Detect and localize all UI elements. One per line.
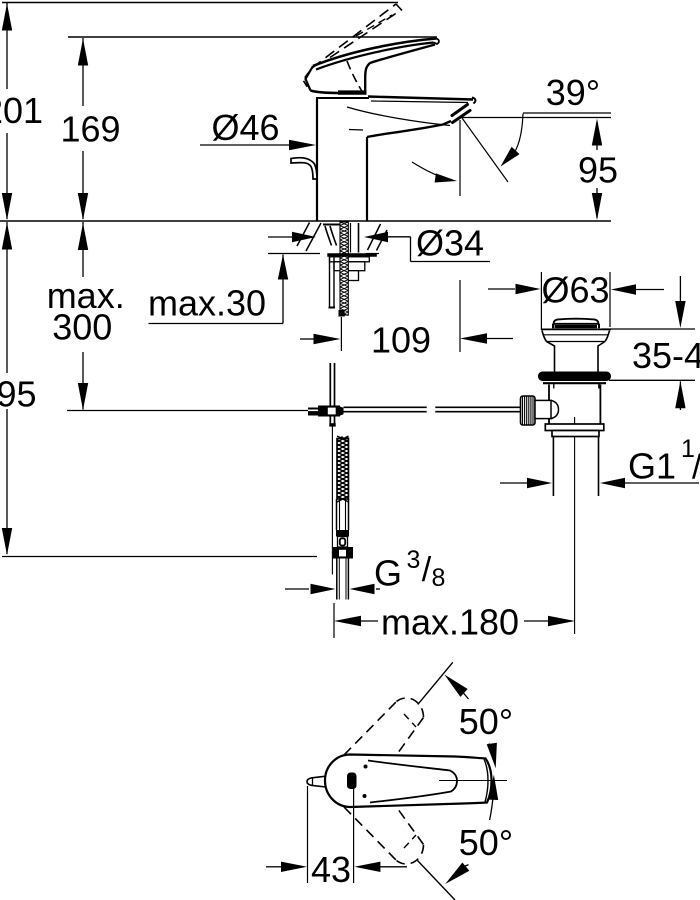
- G3/8 label slash: [422, 551, 432, 589]
- dimension max.30 bottom line: [149, 323, 284, 325]
- dimension 395 bottom reference line: [2, 556, 317, 558]
- dimension 109 right arrow: [460, 333, 487, 343]
- drain body right side: [599, 385, 601, 425]
- counter hatch right line 2: [377, 230, 388, 251]
- drain side knob transition: [551, 400, 559, 418]
- G1-1/4 left line: [500, 482, 527, 484]
- svg-text:max.30: max.30: [148, 283, 266, 324]
- handle lever tip cap: [434, 39, 439, 45]
- handle top view nub: [307, 776, 326, 787]
- dimension 201 line upper segment: [6, 3, 8, 89]
- faucet spout tip hook: [472, 98, 475, 104]
- tee right wedge: [340, 407, 344, 416]
- dimension 109 right line: [486, 338, 513, 340]
- svg-text:/: /: [422, 551, 432, 589]
- raised handle dashed edge B: [330, 10, 401, 58]
- dimension 109 left extension line: [340, 317, 342, 351]
- svg-text:169: 169: [60, 109, 120, 150]
- drain flange: [538, 372, 611, 382]
- dimension max.300 bottom reference line: [67, 410, 308, 412]
- drain flare top face: [541, 328, 611, 330]
- drain slip nut lower: [552, 431, 599, 437]
- drain neck left: [547, 342, 555, 372]
- handle top view dot lower: [363, 794, 367, 798]
- dimension 43 label: [311, 849, 351, 890]
- drain tailpipe left: [552, 437, 554, 497]
- dimension 43 left line: [266, 866, 282, 868]
- drain flare line1: [544, 334, 608, 336]
- dimension max.300 label line1: [47, 275, 125, 316]
- outlet vertical ray lower: [459, 280, 461, 352]
- dimension 95 line lower segment: [596, 188, 598, 218]
- dimension 395 arrow down: [2, 528, 12, 555]
- counter hatch left line 2: [297, 223, 310, 247]
- hose tube below left inner: [338, 559, 340, 600]
- pull rod left line: [329, 363, 331, 406]
- faucet body left edge: [316, 99, 318, 221]
- drain neck right: [598, 342, 605, 372]
- G3/8 right arrow: [350, 584, 375, 594]
- svg-text:43: 43: [311, 849, 351, 890]
- dimension max.300 line upper segment: [82, 222, 84, 277]
- faucet spout underside: [367, 121, 451, 137]
- dimension D63 label: [541, 270, 609, 311]
- svg-text:109: 109: [371, 320, 431, 361]
- dimension 43 left arrow: [281, 862, 307, 872]
- dimension max.300 label line2: [52, 307, 112, 348]
- drain tailpipe right: [598, 437, 600, 497]
- hose tube wall right outer: [348, 499, 350, 530]
- dimension 35-45 top line: [602, 328, 695, 330]
- dimension D63 right extension: [609, 272, 611, 327]
- dimension 169 arrow down: [78, 193, 88, 220]
- outlet angled ray 39deg: [462, 118, 508, 182]
- dimension 395 arrow up: [2, 223, 12, 250]
- handle lever bottom edge: [365, 45, 435, 92]
- extension line top of handle (169 ref): [68, 36, 437, 38]
- lower 50deg arrowhead 2: [445, 863, 469, 885]
- rotated handle lower dashed right edge: [398, 809, 424, 845]
- G3/8 label G: [374, 553, 402, 594]
- svg-text:3: 3: [407, 546, 421, 574]
- rotated handle lower dashed inner: [404, 835, 416, 848]
- svg-text:50°: 50°: [459, 822, 513, 863]
- svg-text:max.180: max.180: [381, 602, 519, 643]
- max180 right arrow: [548, 616, 575, 626]
- drain side knob collar: [535, 400, 551, 418]
- dimension D34 leader bend: [410, 237, 412, 262]
- rotated handle lower dashed left edge: [344, 807, 397, 861]
- hose connector nut: [333, 547, 353, 559]
- handle base bottom bar: [338, 90, 367, 94]
- drain slip nut upper: [545, 424, 604, 431]
- dimension 35-45 label: [632, 335, 700, 376]
- dimension 395 line lower segment: [6, 409, 8, 554]
- drain plug cap ring: [555, 325, 598, 328]
- dimension max.300 arrow up: [78, 223, 88, 250]
- rotated handle lower dashed tip: [397, 845, 424, 864]
- dimension 169 label: [60, 109, 120, 150]
- dimension 169 line upper segment: [82, 38, 84, 106]
- dimension 395 line upper segment: [6, 222, 8, 373]
- handle lever top edge outer: [313, 39, 436, 67]
- dimension 95 label: [578, 150, 618, 191]
- dimension 201 line lower segment: [6, 133, 8, 219]
- drain centerline: [574, 417, 576, 634]
- tee left piece: [308, 408, 318, 416]
- max180 left arrow: [334, 616, 361, 626]
- dimension D34 right line: [388, 236, 411, 238]
- faucet aerator inner stroke: [453, 111, 471, 123]
- hose tube below right outer: [347, 559, 349, 600]
- upper 50deg label: [459, 701, 513, 742]
- dimension max.300 line lower segment: [82, 352, 84, 410]
- dimension 95 line upper segment: [596, 122, 598, 150]
- G3/8 right tail: [376, 588, 380, 590]
- svg-text:95: 95: [578, 150, 618, 191]
- pull rod right line: [334, 363, 336, 406]
- horizontal lever rod segment 2 top: [435, 406, 521, 408]
- handle lever top edge inner: [316, 43, 434, 70]
- faucet aerator outer stroke: [452, 105, 468, 116]
- handle top view nub notch: [312, 778, 314, 786]
- dimension D63 right arrow: [611, 284, 636, 294]
- upper 50deg reference line: [418, 662, 453, 704]
- 39deg leader line: [523, 112, 611, 114]
- handle top view dot upper: [364, 765, 368, 769]
- shank seal top line: [323, 224, 340, 226]
- max180 left extension line: [333, 603, 335, 638]
- handle top view outline: [325, 755, 492, 808]
- handle base left outline: [306, 66, 314, 91]
- shank right component edge: [358, 223, 360, 253]
- drain flare line2: [547, 341, 606, 343]
- mounting flange bar: [327, 253, 377, 257]
- dimension D63 left line: [488, 288, 515, 290]
- dimension 395 label: [0, 374, 37, 415]
- drain flange washer line: [543, 382, 606, 384]
- spout swivel arc: [412, 162, 453, 181]
- G1-1/4 right arrow: [600, 478, 625, 488]
- hose tube wall left outer: [336, 499, 338, 530]
- pull rod stub below tee right: [334, 417, 336, 424]
- horizontal lever rod segment 1 top: [344, 406, 427, 408]
- 39deg leader arc: [516, 114, 524, 151]
- max180 label: [381, 602, 519, 643]
- drain body shoulder tick right: [598, 384, 600, 389]
- dimension 43 right extension: [353, 788, 355, 884]
- handle top view right inner arc: [484, 759, 488, 802]
- svg-text:Ø34: Ø34: [416, 223, 484, 264]
- hose tube wall left inner: [339, 499, 341, 530]
- drain plug cap ring ends: [553, 324, 599, 329]
- dimension 35-45 arrow down: [675, 301, 685, 328]
- threaded rod with hatch: [340, 222, 348, 316]
- counter hatch left line 1: [306, 223, 321, 251]
- pull rod guide bottom cap: [329, 307, 336, 309]
- G3/8 label numerator: [407, 546, 421, 574]
- horizontal lever rod segment 2 bottom: [435, 411, 521, 413]
- rotated handle upper dashed right edge: [398, 718, 424, 754]
- hose connector mid: [338, 537, 348, 548]
- svg-text:50°: 50°: [459, 701, 513, 742]
- dimension 35-45 dim line lower: [679, 381, 681, 410]
- drain flare right side: [605, 331, 610, 342]
- svg-text:8: 8: [432, 564, 446, 592]
- dimension 109 left arrow: [314, 334, 341, 344]
- G3/8 label denominator: [432, 564, 446, 592]
- raised handle dashed tip: [396, 4, 402, 11]
- dimension 43 left extension: [307, 786, 309, 883]
- raised handle dashed back zigzag: [303, 72, 309, 88]
- tee main block: [318, 406, 340, 417]
- upper 50deg arrowhead 1: [444, 675, 467, 697]
- rotated handle upper dashed inner: [404, 714, 416, 727]
- mounting nut step B: [334, 262, 365, 271]
- rotated handle upper dashed left edge: [344, 702, 397, 756]
- faucet body seam line: [349, 129, 363, 132]
- counter bottom line left: [268, 253, 320, 255]
- dimension D34 underline: [411, 261, 491, 263]
- handle top view logo mark: [347, 773, 357, 790]
- dimension max.300 arrow down: [78, 383, 88, 410]
- svg-text:395: 395: [0, 374, 37, 415]
- 39deg label: [546, 72, 600, 113]
- dimension max.30 arrow up: [278, 255, 288, 280]
- dimension D34 left line: [268, 236, 294, 238]
- dimension 109 label: [371, 320, 431, 361]
- faucet spout inner curve: [347, 107, 450, 126]
- braided hose: [337, 436, 349, 502]
- dimension max.30 label: [148, 283, 266, 324]
- handle top view inner contour: [368, 761, 457, 803]
- G3/8 left arrow: [311, 584, 336, 594]
- dimension 43 right line: [380, 866, 407, 868]
- raised handle dashed inner edge: [356, 15, 392, 36]
- drain flare left side: [542, 331, 547, 342]
- svg-text:G1: G1: [628, 446, 676, 487]
- hose tube below left outer: [336, 559, 338, 600]
- max180 right line: [524, 620, 549, 622]
- shank right component edge2: [350, 223, 352, 253]
- pull rod hairline: [331, 427, 333, 575]
- pull rod stub below tee left: [329, 417, 331, 424]
- upper 50deg arc segment 2: [489, 744, 494, 758]
- pull rod guide right edge: [333, 257, 335, 308]
- rotated handle upper dashed tip: [397, 698, 424, 717]
- svg-text:/: /: [692, 449, 700, 487]
- svg-text:35-45: 35-45: [632, 335, 700, 376]
- lower 50deg label: [459, 822, 513, 863]
- dimension max.30 leader vertical: [282, 255, 284, 324]
- dimension 201 arrow up: [2, 4, 12, 31]
- G1-1/4 left arrow: [527, 478, 552, 488]
- hose connector band: [336, 530, 349, 537]
- pull rod guide left edge: [329, 257, 331, 308]
- faucet spout top edge: [368, 97, 473, 100]
- dimension D46 leader line: [200, 144, 292, 146]
- drain body left side: [548, 385, 550, 425]
- counter hatch right line 1: [368, 224, 381, 250]
- dimension 35-45 dim line upper: [679, 276, 681, 302]
- lower 50deg arrowhead 1: [488, 775, 498, 800]
- spout swivel arrowhead: [435, 173, 457, 182]
- svg-text:Ø63: Ø63: [541, 270, 609, 311]
- drain side knob knurled: [521, 396, 536, 425]
- dimension 95 reference line: [462, 117, 611, 119]
- upper 50deg arrowhead 2: [487, 743, 497, 769]
- dimension D34 label: [416, 223, 484, 264]
- handle base bottom outline: [311, 91, 341, 94]
- dimension 35-45 arrow up: [675, 381, 685, 408]
- G1-1/4 label: [628, 435, 700, 492]
- mounting nut step A: [330, 257, 370, 262]
- dimension 43 right arrow: [354, 862, 380, 872]
- dimension 169 line lower segment: [82, 151, 84, 219]
- raised handle dashed rear curve: [347, 61, 363, 92]
- faucet body right edge: [366, 137, 368, 221]
- dimension 35-45 bottom line: [609, 379, 695, 381]
- dimension D63 left arrow: [516, 284, 541, 294]
- G1-1/4 right line: [625, 482, 699, 484]
- faucet body top line: [316, 97, 369, 99]
- rod bottom tip: [339, 310, 345, 317]
- dimension 169 arrow up: [78, 39, 88, 66]
- svg-text:39°: 39°: [546, 72, 600, 113]
- drain plug cap lens: [554, 319, 599, 324]
- shank seal curve 2: [330, 226, 337, 246]
- dimension 201 arrow down: [2, 193, 12, 220]
- faucet spout top inner edge: [371, 101, 468, 103]
- extension line top of raised handle (201 ref): [2, 2, 398, 4]
- drain body shoulder tick left: [553, 384, 555, 389]
- dimension 109 left line: [300, 338, 316, 340]
- hose tube wall right inner: [345, 499, 347, 530]
- faucet pull-rod knob: [291, 158, 317, 179]
- outlet vertical ray upper: [459, 120, 461, 196]
- upper 50deg arc segment 1: [450, 680, 469, 699]
- dimension D63 right line: [636, 289, 664, 291]
- counter top line: [0, 220, 611, 222]
- lower 50deg reference line: [418, 861, 456, 900]
- dimension D63 left extension: [540, 272, 542, 330]
- dimension D34 right arrow: [364, 232, 388, 242]
- svg-text:G: G: [374, 553, 402, 594]
- handle top view centerline: [439, 780, 507, 782]
- svg-text:Ø46: Ø46: [211, 107, 279, 148]
- pull rod stub cap: [329, 423, 335, 426]
- lower 50deg arc segment 2: [455, 865, 469, 874]
- counter bottom line right: [366, 253, 379, 255]
- G3/8 left line: [285, 588, 309, 590]
- 39deg arc arrowhead: [501, 147, 520, 167]
- dimension 95 arrow down: [592, 193, 602, 220]
- mounting nut step C: [340, 271, 359, 281]
- dimension D46 label: [211, 107, 279, 148]
- dimension 201 label: [0, 90, 43, 131]
- hose tube below right inner: [345, 559, 347, 600]
- raised handle dashed edge A: [312, 4, 396, 68]
- dimension D34 left arrow: [292, 232, 316, 242]
- horizontal lever rod segment 1 bottom: [344, 411, 427, 413]
- dimension D46 arrow: [289, 140, 316, 150]
- shank seal curve 1: [325, 226, 332, 246]
- svg-text:201: 201: [0, 90, 43, 131]
- dimension 95 arrow up: [592, 119, 602, 146]
- svg-text:300: 300: [52, 307, 112, 348]
- max180 left line: [361, 620, 378, 622]
- lower 50deg arc segment 1: [490, 793, 494, 820]
